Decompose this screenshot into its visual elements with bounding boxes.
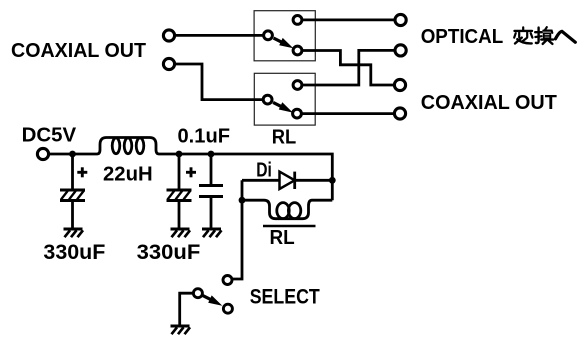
capacitor C1 330uF wire top xyxy=(71,154,74,189)
wire A: box1 bottom to terminal T3 (staircase) xyxy=(302,51,395,86)
terminal T4 xyxy=(394,108,405,119)
label 変換へ (kanji drawn as strokes) xyxy=(514,27,575,44)
relay 1 NC contact xyxy=(293,16,302,25)
wire select common to ground xyxy=(180,293,193,326)
capacitor C2 wire bottom xyxy=(178,202,181,230)
relay 2 common contact xyxy=(263,95,272,104)
capacitor C1 plates xyxy=(60,189,85,192)
select feed terminal circle xyxy=(223,276,232,285)
diode Di triangle xyxy=(280,172,295,189)
capacitor C2 plates xyxy=(167,189,192,192)
relay 1 NO contact xyxy=(293,46,302,55)
svg-text:0.1uF: 0.1uF xyxy=(178,125,231,148)
capacitor C3 plates xyxy=(199,184,223,187)
inductor loop 1 xyxy=(112,138,120,154)
svg-text:330uF: 330uF xyxy=(137,241,201,264)
relay 2 NC contact xyxy=(293,81,302,90)
svg-text:COAXIAL OUT: COAXIAL OUT xyxy=(421,92,557,114)
label + C2 xyxy=(186,167,196,177)
terminal L2 xyxy=(163,58,174,69)
ground G2 xyxy=(171,229,191,237)
capacitor C1 hatch xyxy=(61,191,84,200)
svg-text:RL: RL xyxy=(270,226,295,249)
svg-text:OPTICAL: OPTICAL xyxy=(421,26,504,48)
svg-text:DC5V: DC5V xyxy=(22,124,77,147)
select switch common circle xyxy=(193,289,202,298)
relay coil loop 1 xyxy=(277,203,289,219)
capacitor C2 hatch xyxy=(168,191,191,200)
DC5V terminal xyxy=(37,148,48,159)
へ xyxy=(556,31,576,42)
ground G3 xyxy=(202,229,222,237)
terminal T2 xyxy=(395,45,406,56)
inductor L1 22uH body xyxy=(97,138,159,155)
relay box 2 outline xyxy=(254,73,315,125)
terminal T3 xyxy=(394,79,405,90)
wire L1 to box1 common xyxy=(175,34,264,37)
svg-text:Di: Di xyxy=(256,160,272,182)
junction dot D3 xyxy=(208,151,215,158)
wire rail right of inductor, corner down to diode/coil branch xyxy=(159,154,332,200)
ground G1 xyxy=(64,229,84,237)
relay coil loop 2 xyxy=(288,203,300,219)
wire box1 top to terminal T1 xyxy=(302,18,395,21)
junction dot D4 xyxy=(329,177,336,184)
relay 1 common contact xyxy=(264,31,273,40)
label + C1 xyxy=(77,167,87,177)
svg-text:COAXIAL OUT: COAXIAL OUT xyxy=(11,40,146,62)
relay 2 NO contact xyxy=(293,109,302,118)
svg-text:RL: RL xyxy=(272,125,297,148)
wire B: box2 top to terminal T2 (staircase) xyxy=(302,50,395,85)
junction dot D5 xyxy=(239,197,246,204)
junction dot D2 xyxy=(176,151,183,158)
svg-text:22uH: 22uH xyxy=(103,163,153,186)
diode Di wire xyxy=(242,179,332,182)
svg-text:330uF: 330uF xyxy=(43,241,105,264)
select switch arm arrow xyxy=(203,295,223,305)
diode Di cathode bar xyxy=(293,172,296,189)
capacitor C2 330uF wire top xyxy=(178,154,181,189)
ground G4 xyxy=(171,326,191,334)
inductor loop 3 xyxy=(136,138,144,154)
wire L2 to box2 common xyxy=(175,64,264,100)
select switch open contact circle xyxy=(223,304,232,313)
svg-text:SELECT: SELECT xyxy=(250,286,320,309)
capacitor C3 0.1uF wire top xyxy=(210,154,213,185)
relay coil overline xyxy=(263,225,316,228)
wire rail left of inductor xyxy=(49,153,98,156)
terminal L1 xyxy=(163,30,174,41)
inductor loop 2 xyxy=(124,138,132,154)
junction dot D1 xyxy=(69,151,76,158)
wire box2 bottom to terminal T4 xyxy=(302,112,395,115)
relay box 1 outline xyxy=(254,11,315,61)
terminal T1 xyxy=(395,14,406,25)
capacitor C3 wire bottom xyxy=(210,198,213,230)
relay 1 arm arrow xyxy=(274,38,294,48)
capacitor C1 wire bottom xyxy=(71,202,74,230)
relay coil RL body xyxy=(242,200,332,219)
wire from diode/coil node down to select xyxy=(233,180,242,279)
relay 2 arm arrow xyxy=(273,102,293,112)
